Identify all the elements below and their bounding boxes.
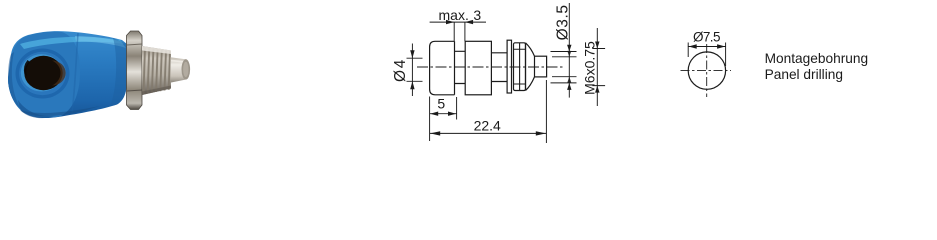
washer [507, 40, 511, 93]
arrow 7.5 left [689, 44, 697, 48]
crosshair vertical [706, 44, 708, 97]
body front barrel [430, 41, 455, 95]
dim Ø4 lines [407, 44, 423, 97]
photo body (blue insulator) [8, 31, 128, 118]
photo bottom shadow on body [20, 106, 100, 116]
arrows M6 [595, 42, 599, 49]
rear neck [491, 53, 507, 82]
photo highlight band [20, 37, 124, 49]
solder pin [535, 56, 547, 77]
dim 7.5 lines [688, 43, 726, 67]
svg-text:Ø3.5: Ø3.5 [554, 4, 571, 40]
photo face shadow [8, 52, 22, 110]
svg-text:22.4: 22.4 [474, 118, 501, 134]
svg-text:Montagebohrung: Montagebohrung [765, 51, 869, 66]
photo right-end shading [110, 38, 128, 106]
nut [514, 43, 526, 91]
arrow 5 right [448, 112, 456, 116]
photo thread section [142, 46, 171, 95]
arrow max3 left [446, 20, 454, 24]
technical drawing [417, 40, 563, 95]
svg-text:max.3: max.3 [439, 7, 482, 23]
cone taper [526, 43, 535, 91]
arrows dia3.5 [567, 45, 571, 52]
photo: blue panel socket [8, 31, 190, 118]
dim 5 lines [430, 97, 457, 120]
body flange block [465, 41, 491, 95]
arrow 7.5 right [717, 44, 725, 48]
dim M6 lines [592, 28, 605, 106]
photo recessed ring [16, 49, 70, 99]
photo pin [171, 57, 190, 82]
drill circle [688, 52, 725, 89]
dim max.3 lines [430, 22, 486, 41]
arrow dia4 bottom [410, 81, 414, 89]
panel drilling symbol [681, 43, 732, 98]
svg-text:Ø4: Ø4 [392, 58, 409, 82]
photo seam line [72, 33, 78, 113]
centerline [417, 66, 563, 68]
photo hole [24, 56, 62, 90]
arrow max3 right [465, 20, 473, 24]
crosshair horizontal [681, 70, 732, 72]
thread neck [455, 51, 466, 83]
photo front face shading [8, 32, 80, 118]
svg-text:M6x0.75: M6x0.75 [581, 41, 597, 95]
dim Ø3.5 line [568, 3, 570, 98]
dimension texts [392, 4, 597, 133]
arrow dia4 top [410, 50, 414, 58]
svg-text:Panel drilling: Panel drilling [765, 67, 843, 82]
dim 22.4 lines [430, 80, 547, 143]
arrowheads [410, 20, 599, 136]
photo metal flange [127, 31, 143, 110]
svg-text:Ø7.5: Ø7.5 [693, 29, 720, 44]
svg-text:5: 5 [437, 96, 445, 112]
dim right extension lines [551, 52, 577, 83]
arrow 5 left [430, 112, 438, 116]
arrow 22.4 right [536, 131, 546, 135]
arrow 22.4 left [430, 131, 440, 135]
